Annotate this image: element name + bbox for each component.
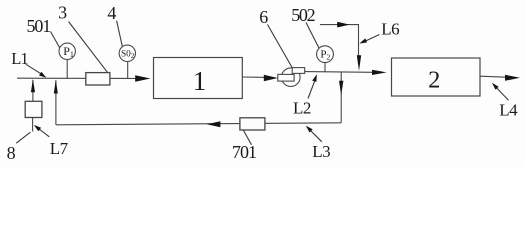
svg-text:3: 3	[58, 3, 67, 23]
leader L6 with arrow	[365, 35, 380, 42]
blower 6 circle	[282, 68, 301, 87]
arrow up on box 8 stem	[31, 79, 35, 92]
leader 4 to SO2	[117, 21, 123, 47]
unit box 2	[392, 58, 481, 96]
svg-text:8: 8	[7, 143, 16, 163]
svg-text:L6: L6	[381, 19, 399, 38]
svg-text:L3: L3	[312, 142, 330, 161]
arrow into box 1	[135, 75, 150, 82]
svg-text:L1: L1	[11, 49, 28, 68]
wire: riser from return line up to main line	[55, 80, 57, 125]
svg-text:4: 4	[107, 3, 116, 23]
arrow down from L6 into main line	[357, 55, 361, 71]
arrow left on return line	[207, 121, 221, 127]
leader L7 with arrow	[40, 129, 50, 137]
arrow down on drop wire	[339, 81, 343, 95]
component box 701 on return line	[240, 118, 265, 130]
wire: line L2 from blower to box 2	[305, 71, 373, 74]
arrow up on riser	[54, 80, 58, 94]
leader 6 to blower	[268, 25, 293, 68]
svg-text:L2: L2	[293, 99, 311, 118]
wire: stem from box 8 up to main line	[32, 80, 34, 101]
wire: drop from main line to return line L3	[340, 72, 342, 123]
svg-text:L7: L7	[50, 139, 69, 158]
arrow into blower 6	[264, 75, 278, 81]
svg-text:502: 502	[291, 5, 314, 25]
unit box 1	[154, 58, 243, 99]
leader 502 to P2	[306, 23, 319, 48]
component box 8	[25, 101, 42, 117]
leader 8 to stem below box 8	[16, 132, 30, 143]
arrow out L4	[505, 75, 520, 81]
leader L3 with arrow	[311, 131, 322, 142]
svg-text:2: 2	[428, 67, 440, 94]
svg-text:501: 501	[27, 16, 51, 36]
svg-text:1: 1	[193, 66, 207, 96]
analyzer SO2 circle	[119, 45, 135, 61]
stem of gauge P1	[66, 60, 68, 79]
wire: return line L3	[56, 123, 341, 125]
wire: outlet line L4	[480, 76, 506, 77]
leader 3 to box 3	[69, 22, 108, 73]
svg-text:L4: L4	[499, 101, 518, 120]
component box 3 on line	[86, 73, 110, 85]
gauge P1 circle	[59, 43, 75, 59]
arrow into box 2	[372, 70, 387, 75]
leader L1 with arrow	[26, 64, 41, 74]
wire: feed line L6 top loop	[320, 25, 359, 57]
wire: stem L7 below box 8	[32, 118, 34, 132]
leader 701 to box 701	[244, 131, 252, 145]
leader L2 with arrow	[308, 82, 315, 99]
leader 501 to P1	[51, 32, 60, 48]
blower 6 outlet duct	[292, 68, 305, 74]
blower 6 inlet duct	[278, 74, 294, 81]
gauge P2 circle	[317, 46, 334, 63]
stem of analyzer SO2	[127, 62, 129, 79]
stem of gauge P2	[324, 63, 326, 72]
wire: main inlet line L1	[17, 77, 136, 79]
svg-text:6: 6	[259, 7, 268, 27]
svg-text:701: 701	[232, 142, 256, 162]
leader L4 with arrow	[497, 88, 509, 101]
wire: line from box 1 to blower 6	[242, 76, 265, 78]
arrow right on L6	[337, 22, 349, 28]
